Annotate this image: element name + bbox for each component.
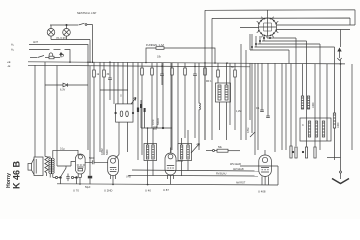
svg-text:50µF: 50µF xyxy=(85,186,91,189)
tube U1 xyxy=(73,154,85,193)
tube3 grid cap xyxy=(171,148,184,162)
rotated labels mid xyxy=(152,118,160,125)
svg-text:6,3V: 6,3V xyxy=(60,89,65,92)
antenna arrow xyxy=(337,48,341,61)
wire speaker xyxy=(34,65,36,157)
tube U3 xyxy=(145,153,176,193)
volume pot row xyxy=(206,146,240,152)
box xyxy=(300,118,331,141)
svg-text:C: C xyxy=(302,124,304,127)
oscillator block xyxy=(100,62,142,160)
svg-text:10k: 10k xyxy=(157,56,162,59)
capacitor C3 xyxy=(193,63,197,138)
lamp L2 xyxy=(66,25,68,29)
fuse F1 xyxy=(45,57,49,59)
svg-text:AM GELB: AM GELB xyxy=(233,168,244,171)
right mid caps xyxy=(247,107,270,137)
IF transformer MF2 left xyxy=(144,128,157,185)
IF transformer MF2 right xyxy=(178,130,200,176)
top lines xyxy=(205,10,355,30)
capacitor C7 xyxy=(144,108,146,112)
lamp L1 xyxy=(50,25,52,29)
coil bar xyxy=(301,96,303,109)
svg-text:0,1M: 0,1M xyxy=(152,120,155,125)
funken row xyxy=(146,43,215,63)
resistor R11 xyxy=(217,149,228,152)
wire A1 xyxy=(29,45,88,63)
wire lamp return xyxy=(51,36,90,39)
cap bar xyxy=(333,113,335,128)
svg-text:0,5M: 0,5M xyxy=(247,128,250,133)
wire xyxy=(44,62,46,157)
wire xyxy=(229,63,231,125)
wire y128 xyxy=(141,127,172,129)
coil bar xyxy=(307,96,309,109)
speaker xyxy=(28,157,43,176)
svg-text:U 408: U 408 xyxy=(258,190,266,194)
anode wire top xyxy=(53,148,78,157)
svg-text:A₁: A₁ xyxy=(11,43,14,47)
mains switch row xyxy=(30,53,62,59)
svg-text:U 70: U 70 xyxy=(73,189,79,193)
wire xyxy=(99,62,101,152)
svg-text:FM BLAU: FM BLAU xyxy=(216,173,227,176)
wire xyxy=(113,62,115,104)
svg-text:MF 1: MF 1 xyxy=(206,80,212,83)
svg-text:1000: 1000 xyxy=(337,122,340,128)
svg-text:30: 30 xyxy=(107,73,110,76)
svg-text:50k: 50k xyxy=(218,146,223,149)
svg-text:U+B: U+B xyxy=(126,176,131,179)
wire to bus xyxy=(90,25,93,63)
pilot lamp circuit xyxy=(47,11,96,62)
coil bar xyxy=(308,121,310,137)
title Horny K 46 B xyxy=(6,160,22,189)
diode D1 xyxy=(63,83,68,87)
wire grid xyxy=(87,62,89,150)
capacitor C4 xyxy=(137,63,139,108)
coil Lc xyxy=(199,63,200,150)
capacitor C1 xyxy=(108,62,112,100)
svg-text:U 2HD: U 2HD xyxy=(104,189,112,193)
resistor R1 xyxy=(93,62,95,70)
svg-text:1,2M: 1,2M xyxy=(236,110,241,113)
svg-text:G: G xyxy=(120,95,122,98)
capacitor C2 xyxy=(160,63,164,85)
capacitor C8 xyxy=(154,126,156,130)
coil T1a xyxy=(218,85,221,100)
coil La xyxy=(49,53,53,58)
mid verticals xyxy=(140,63,200,153)
svg-text:0,05M: 0,05M xyxy=(101,148,104,155)
resistor R9 xyxy=(217,63,219,70)
svg-text:5000: 5000 xyxy=(89,157,95,160)
contact row xyxy=(53,162,77,182)
capacitor C6 xyxy=(140,100,142,104)
lower bars xyxy=(290,146,292,158)
right verticals below bus xyxy=(250,30,352,180)
svg-text:–E: –E xyxy=(7,64,11,68)
left verticals xyxy=(35,62,88,166)
box xyxy=(216,83,231,102)
resistor R2 xyxy=(103,62,105,70)
coil T1b xyxy=(225,85,228,100)
resistor R7 xyxy=(204,63,206,68)
antenna terminals xyxy=(11,41,88,62)
svg-text:ANT: ANT xyxy=(33,41,38,44)
resistor R6 xyxy=(184,63,186,68)
main bus xyxy=(7,60,345,68)
resistor R3 xyxy=(141,63,143,69)
resistor R5 xyxy=(171,63,173,68)
coil bar xyxy=(315,121,317,137)
wire A2 xyxy=(29,49,50,51)
resistor R4 xyxy=(151,63,153,68)
right filter components xyxy=(290,96,340,158)
svg-text:K 46 B: K 46 B xyxy=(12,160,22,189)
bus line B xyxy=(28,65,250,67)
tube U2 xyxy=(104,155,119,193)
resistor R8 xyxy=(156,47,164,50)
svg-text:AM ROT: AM ROT xyxy=(236,182,246,185)
switch S1 xyxy=(79,23,85,25)
staircase xyxy=(250,34,335,64)
svg-text:WS GELB: WS GELB xyxy=(230,163,241,166)
electrolytic C5 xyxy=(85,66,92,189)
pot xyxy=(250,132,255,137)
IF transformer block MF1 xyxy=(205,10,246,140)
wire below box xyxy=(118,122,120,154)
wire xyxy=(56,66,58,167)
bottom right wires xyxy=(126,163,278,185)
svg-text:0,1: 0,1 xyxy=(256,107,260,110)
coil box L3 xyxy=(116,104,133,122)
under-bus component row xyxy=(93,62,207,162)
socket U5 xyxy=(257,17,279,38)
diode row xyxy=(45,84,63,86)
wire xyxy=(50,24,93,27)
earth symbol xyxy=(327,158,349,184)
switch xyxy=(38,56,45,58)
coil Lb xyxy=(61,54,64,57)
coupling cap tube1-tube2 xyxy=(85,157,108,165)
svg-text:U 40: U 40 xyxy=(145,189,151,193)
svg-text:U 87: U 87 xyxy=(163,188,169,192)
svg-text:5000: 5000 xyxy=(106,149,109,155)
gang arrow 2 xyxy=(191,144,200,154)
bottom long wire xyxy=(57,179,278,185)
coil bar xyxy=(322,121,324,137)
gang arrow xyxy=(125,98,136,113)
resistor R10 xyxy=(234,63,236,70)
field coil zigzag xyxy=(45,157,48,177)
svg-text:1k: 1k xyxy=(97,73,100,76)
tube U4 xyxy=(258,150,271,194)
svg-text:NETZSCH. LSP: NETZSCH. LSP xyxy=(77,11,96,15)
bus line A xyxy=(28,62,345,64)
svg-text:0,1µ: 0,1µ xyxy=(60,148,65,151)
wire xyxy=(141,90,143,155)
arrow xyxy=(60,53,62,58)
svg-text:A₂: A₂ xyxy=(11,48,14,52)
svg-text:1000: 1000 xyxy=(312,102,315,108)
output transformer T2 xyxy=(47,156,55,177)
